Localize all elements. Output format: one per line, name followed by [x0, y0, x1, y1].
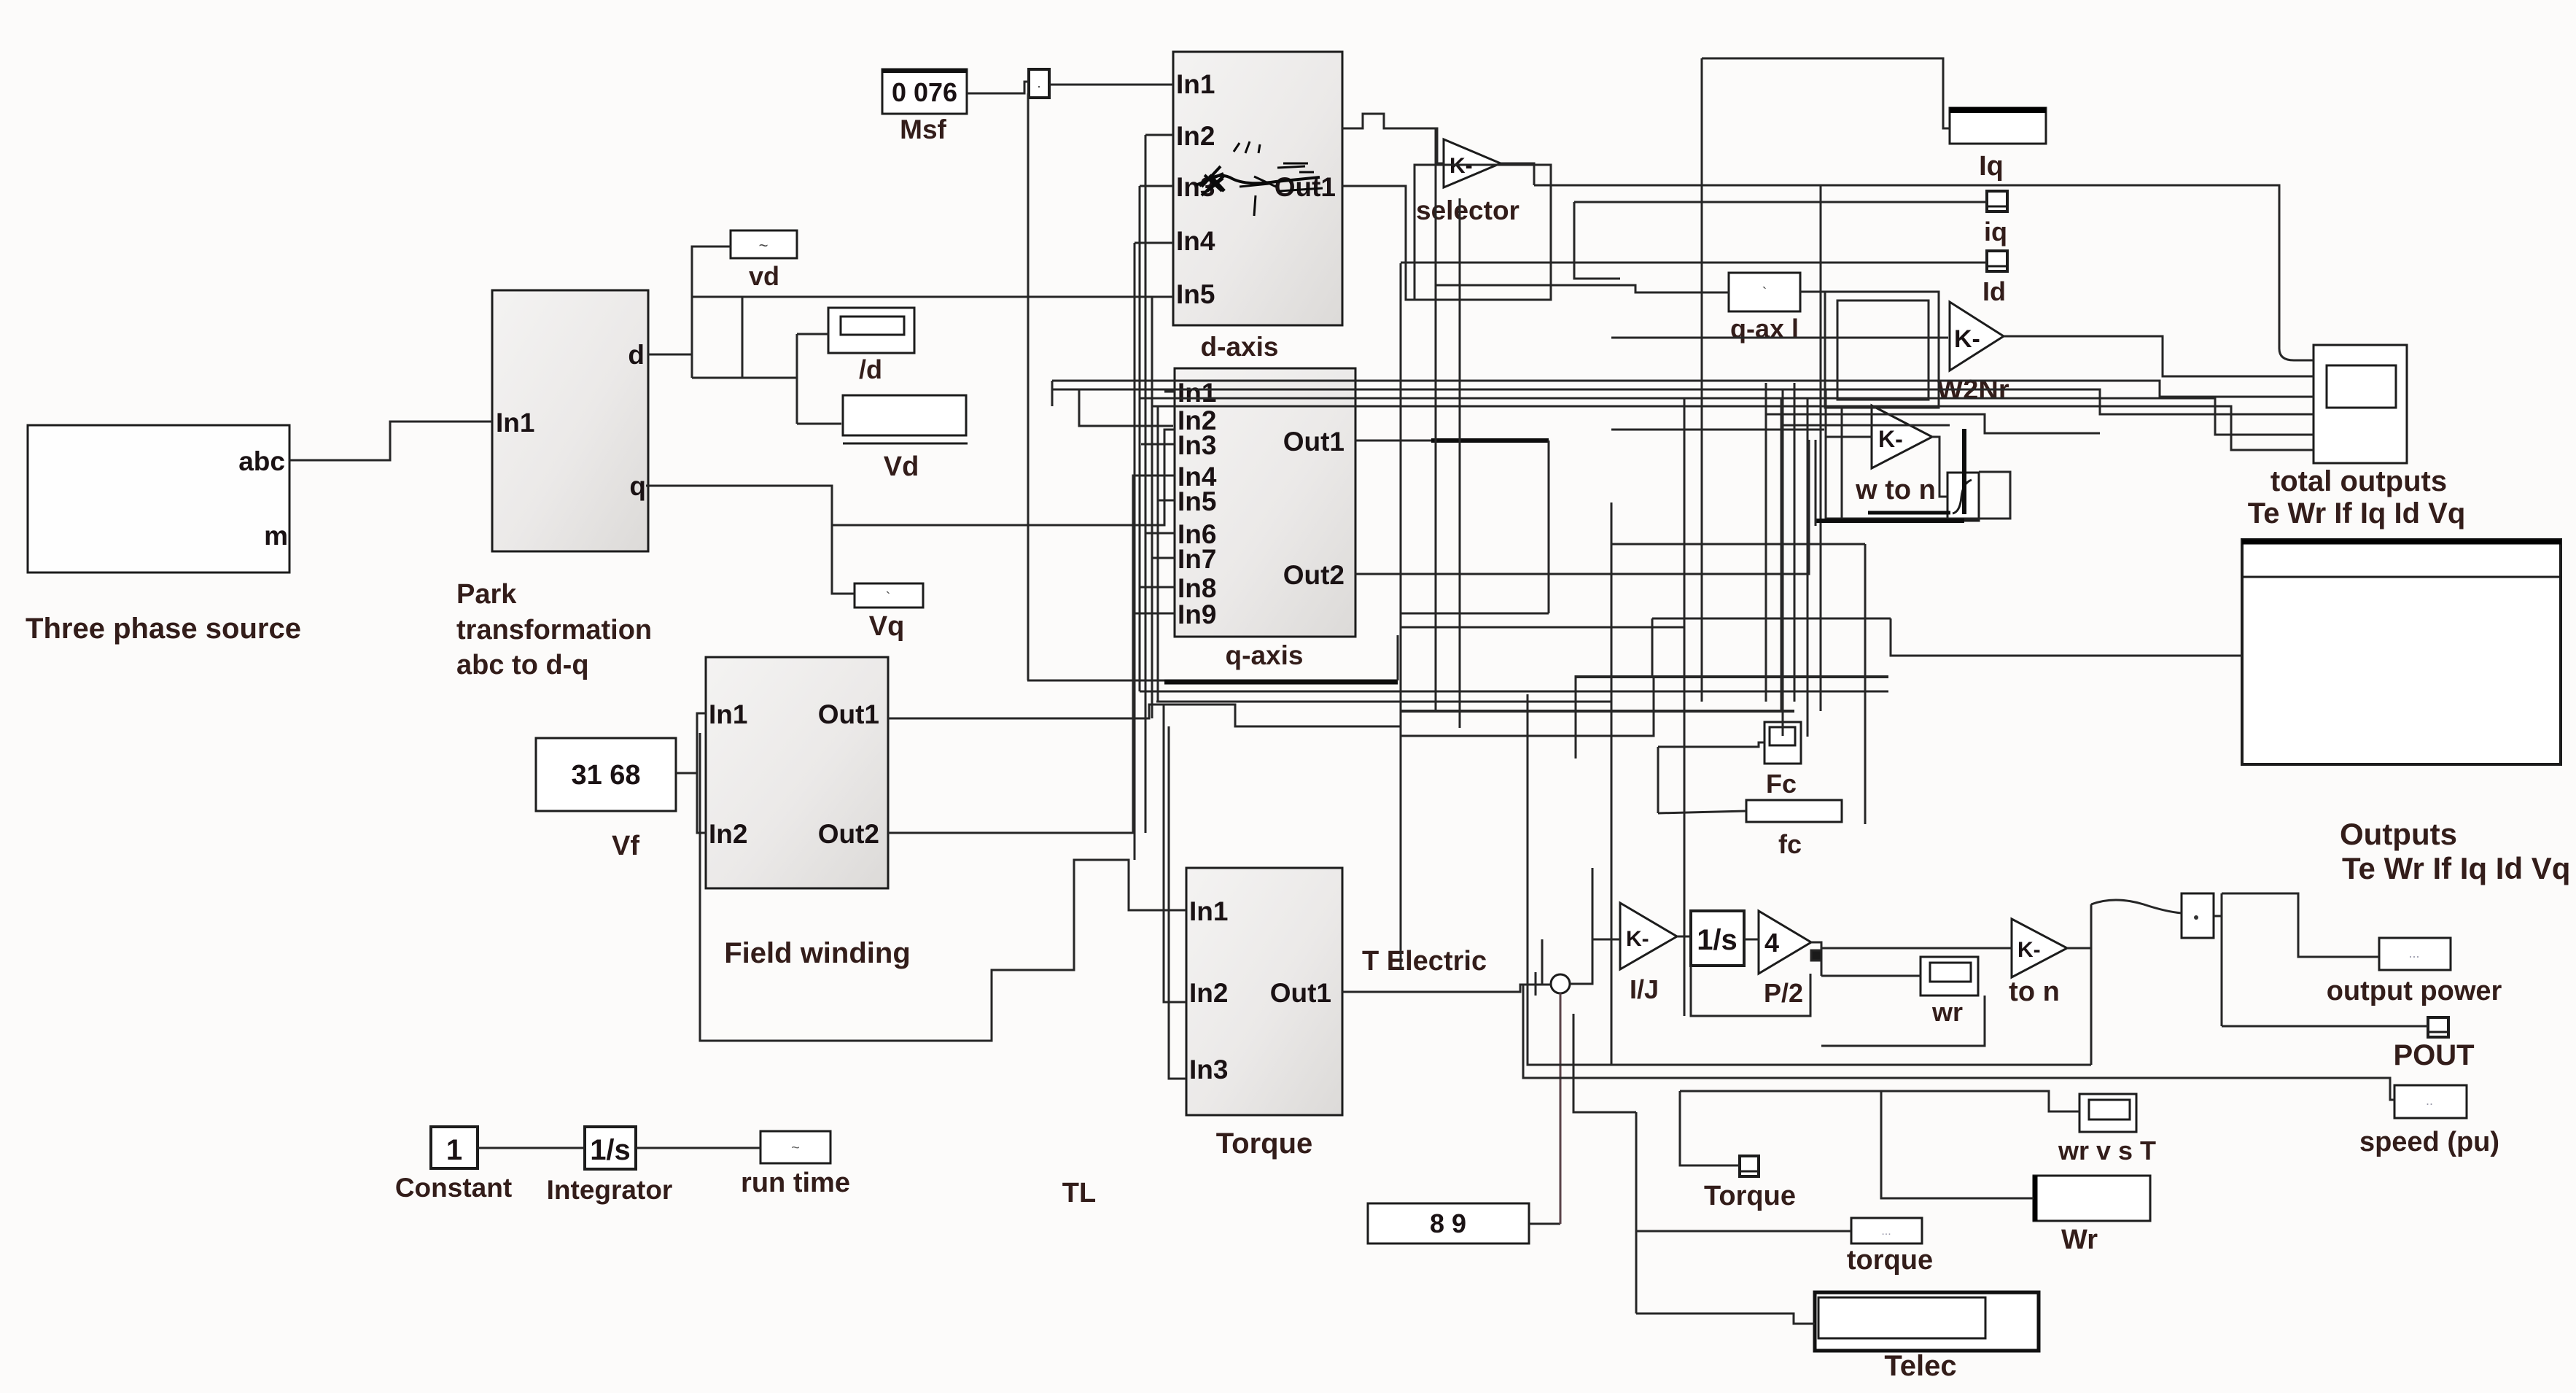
svg-text:q-axis: q-axis [1226, 640, 1304, 670]
display fc [1746, 800, 1842, 859]
outport Torque [1704, 1156, 1796, 1211]
svg-text:Park: Park [456, 579, 517, 610]
wire loop below integrator [1691, 966, 1810, 1016]
wire P/2 junction [1811, 942, 1821, 976]
wire bundle h2 to total outputs [1052, 389, 2314, 414]
wire segment y583 [1781, 424, 1950, 427]
wire thick horizontal w-n [1816, 519, 1964, 523]
wire q-axis In7 stub [1152, 557, 1175, 559]
svg-text:In2: In2 [1189, 978, 1228, 1008]
svg-text:output power: output power [2327, 976, 2502, 1006]
svg-text:Out1: Out1 [1270, 978, 1331, 1008]
wire loop under Field winding to Torque In1 [700, 733, 1186, 1041]
svg-text:In3: In3 [1189, 1055, 1228, 1084]
wire q-axis In5 stub [1158, 500, 1175, 502]
wire q-axis In8 stub [1140, 586, 1175, 589]
svg-text:1/s: 1/s [1697, 924, 1738, 956]
mux small block after Msf [1029, 69, 1049, 98]
gain to n [2009, 919, 2067, 1007]
wire segment y568 left [1766, 414, 1939, 416]
wire bundle h1 to total outputs [1052, 381, 2314, 397]
svg-text:d-axis: d-axis [1201, 332, 1279, 362]
wire vertical v2558 [1864, 544, 1867, 824]
wire vertical v2490 [1815, 440, 1817, 526]
wire trunk y962 [1156, 701, 1611, 703]
wire w to n input [1826, 436, 1872, 438]
svg-text:8 9: 8 9 [1430, 1208, 1466, 1238]
wire q-axis In3 stub [1141, 443, 1175, 446]
constant Vf 31.68 [536, 738, 676, 861]
svg-text:total outputs: total outputs [2270, 465, 2447, 497]
wire q-axis In9 stub [1135, 613, 1175, 615]
svg-text:Torque: Torque [1704, 1181, 1796, 1211]
wire fc corner vertical [1657, 747, 1659, 813]
svg-text:In8: In8 [1178, 573, 1216, 603]
wire thick trunk y933 [1027, 680, 1166, 682]
outport POUT [2393, 1017, 2474, 1071]
gain selector [1416, 139, 1519, 225]
wire stair right of w-n [1939, 414, 2100, 433]
block q-ax I [1729, 273, 1800, 344]
wire selector output [1501, 163, 1534, 185]
wire Vf branch to Field In2 [697, 773, 706, 833]
wire torque display feed [1636, 1230, 1851, 1233]
wire Torque Out1 to sum [1342, 985, 1551, 992]
wire In5 junction drop [742, 298, 744, 378]
scope Iq [1950, 108, 2046, 182]
display Vq [855, 583, 923, 642]
wire vertical v2161 [1575, 675, 1577, 758]
svg-text:31 68: 31 68 [571, 760, 640, 791]
wire vertical v2422 [1765, 383, 1767, 702]
wire fc input [1658, 811, 1746, 813]
wire source abc to Park In1 [289, 422, 492, 460]
subsystem d-axis [1173, 52, 1342, 362]
display speed (pu) [2359, 1085, 2499, 1157]
constant Msf 0.076 [882, 69, 967, 144]
svg-text:q: q [629, 471, 646, 501]
svg-text:Vd: Vd [884, 451, 919, 482]
sum junction circle [1551, 974, 1570, 993]
display Vd [843, 395, 968, 482]
wire W2Nr input [1611, 337, 1948, 339]
svg-text:In4: In4 [1176, 226, 1215, 256]
wire sum to I/J [1570, 939, 1620, 984]
svg-text:K-: K- [1878, 426, 1903, 452]
wire junction vertical [796, 334, 798, 424]
svg-text:..: .. [2426, 1093, 2433, 1108]
wire Fc input [1658, 742, 1764, 747]
svg-text:Field winding: Field winding [724, 937, 911, 969]
wire Constant to Integrator [478, 1147, 585, 1149]
svg-text:Vf: Vf [612, 831, 639, 861]
wire vertical v2124 [1548, 441, 1550, 613]
svg-text:In2: In2 [1176, 121, 1215, 151]
wire trunk y928 right [1576, 675, 1888, 678]
svg-text:Vq: Vq [869, 611, 905, 642]
svg-text:1/s: 1/s [590, 1134, 631, 1166]
svg-text:Msf: Msf [900, 115, 946, 144]
wire bundle dip to In2 [1079, 389, 1173, 426]
svg-text:Fc: Fc [1766, 769, 1797, 799]
svg-text:Out2: Out2 [818, 819, 879, 849]
wire vertical v2479 [1807, 398, 1809, 737]
wire loop below wr [1821, 996, 1985, 1046]
svg-text:abc to d-q: abc to d-q [456, 650, 589, 680]
svg-text:TL: TL [1062, 1178, 1096, 1208]
svg-text:Te Wr If Iq Id Vq: Te Wr If Iq Id Vq [2342, 851, 2570, 885]
svg-text:POUT: POUT [2393, 1039, 2474, 1071]
wire to n lower vertical [2090, 948, 2093, 1065]
wire horizontal y860 [1401, 626, 1684, 629]
scope /d [828, 308, 914, 384]
wire W2Nr loop inner [1837, 300, 1929, 400]
wire Integrator to run time [636, 1147, 760, 1149]
svg-text:Telec: Telec [1884, 1350, 1956, 1382]
annotation scribble on d-axis [1196, 141, 1323, 216]
svg-text:vd: vd [749, 261, 779, 291]
wire w to n loop bottom [1826, 472, 2010, 519]
svg-text:Out1: Out1 [818, 699, 879, 729]
svg-text:~: ~ [791, 1140, 800, 1156]
wire q-ax I feed [1436, 285, 1729, 292]
wire I/J to 1/s [1677, 936, 1691, 938]
wire In3 stub d-axis [1140, 185, 1173, 187]
wire mux vertical trunk down [1027, 93, 1030, 680]
wire d to Vd junction [692, 377, 797, 379]
wire d to vd display [692, 247, 731, 378]
svg-text:`: ` [1762, 285, 1767, 301]
wire bundle left vertical [1051, 381, 1054, 406]
svg-text:In1: In1 [1176, 69, 1215, 99]
subsystem Field winding [706, 657, 911, 969]
integrator block [547, 1127, 673, 1205]
svg-text:Id: Id [1982, 276, 2006, 306]
wire vertical 1917 up [1397, 635, 1399, 680]
wire w to n output to block [1932, 437, 1947, 497]
wire long speed pu [1523, 985, 2394, 1100]
wire iq outport line [1574, 201, 1987, 203]
svg-text:q-ax l: q-ax l [1730, 314, 1799, 344]
svg-text:P/2: P/2 [1764, 978, 1803, 1008]
wire W2Nr output to total outputs [2004, 336, 2314, 376]
wire Msf to mux [967, 82, 1029, 93]
wire q-axis In6 stub [1145, 532, 1175, 535]
subsystem Torque [1186, 868, 1342, 1160]
svg-text:~: ~ [759, 236, 768, 255]
wire trunk y975 [1401, 710, 1794, 713]
svg-text:Wr: Wr [2061, 1225, 2098, 1255]
wire bundle v1556 [1134, 243, 1136, 860]
wire to POUT [2222, 1025, 2428, 1028]
wire horizontal y589 [1611, 429, 1824, 431]
wire Vf to Field In1 [676, 713, 706, 773]
wire d to d-axis In5 [692, 296, 1173, 298]
scope wr [1921, 957, 1978, 1027]
wire Torque In3 feed [1169, 726, 1186, 1079]
wire bundle v1588 [1157, 406, 1159, 702]
svg-text:...: ... [2408, 946, 2419, 961]
wire q-axis In1 stub [1164, 391, 1175, 393]
wire trunk y948 [1140, 691, 1888, 693]
wire stub near sum [1535, 972, 1537, 996]
svg-text:transformation: transformation [456, 615, 652, 645]
svg-text:abc: abc [238, 446, 285, 476]
wire q to q-axis In2 [832, 430, 1175, 525]
wire sum tap down [1573, 1014, 1636, 1112]
svg-text:run time: run time [741, 1168, 850, 1198]
wire vertical v2504 [1825, 389, 1827, 519]
constant 8.9 [1368, 1203, 1529, 1243]
wire vertical v2002 [1459, 198, 1461, 728]
block Three phase source [26, 425, 301, 645]
outport Id [1982, 251, 2007, 306]
subsystem q-axis [1175, 368, 1355, 670]
annotation box Outputs [2242, 540, 2570, 885]
integrator 1/s [1691, 911, 1744, 966]
wire wr vs T feed [1680, 1091, 2079, 1111]
wire mux to d-axis In1 [1049, 84, 1173, 86]
svg-text:Out1: Out1 [1275, 172, 1336, 202]
svg-text:Three phase source: Three phase source [26, 613, 301, 645]
wire v2266 [1651, 618, 1654, 675]
svg-text:1: 1 [446, 1134, 462, 1166]
wire Torque In2 feed [1164, 705, 1186, 1002]
svg-text:wr: wr [1931, 997, 1963, 1027]
wire vertical v2210 [1611, 503, 1613, 1065]
svg-text:K-: K- [1626, 927, 1649, 951]
wire bundle h4 to total outputs [1152, 406, 2314, 450]
svg-text:K-: K- [1954, 325, 1980, 353]
wire q-axis Out2 trunk [1355, 440, 1809, 574]
wire horizontal y746 [1611, 543, 1865, 546]
gain w to n [1855, 406, 1936, 505]
wire to scope /d [797, 333, 829, 335]
wire loop to output power [2222, 893, 2379, 957]
wire q-axis Out1 trunk [1355, 440, 1431, 442]
svg-text:Iq: Iq [1979, 151, 2004, 182]
svg-text:speed (pu): speed (pu) [2359, 1127, 2499, 1157]
svg-text:fc: fc [1778, 829, 1802, 859]
wire to Torque outport [1680, 1091, 1740, 1165]
scope total outputs [2248, 345, 2466, 529]
svg-text:T Electric: T Electric [1362, 946, 1487, 977]
svg-text:Outputs: Outputs [2340, 817, 2457, 851]
block Park transformation [456, 290, 652, 680]
display output power [2327, 938, 2502, 1006]
wire Park q out to Vq [646, 486, 855, 594]
wire 1/s to P/2 [1744, 939, 1759, 941]
wire horizontal y847 [1401, 613, 1549, 615]
wire Telec feed [1636, 1314, 1815, 1324]
svg-text:iq: iq [1984, 217, 2007, 247]
svg-text:Out2: Out2 [1283, 560, 1345, 590]
svg-text:I/J: I/J [1630, 974, 1659, 1004]
wire Fc feed horizontal [1401, 675, 1654, 736]
wire vertical v2461 [1794, 383, 1796, 702]
wire to Outputs box [1891, 618, 2242, 656]
svg-text:In3: In3 [1178, 430, 1216, 460]
wire thick Out1 segment [1431, 438, 1549, 443]
wire vertical v1921 [1400, 263, 1402, 970]
display run time [741, 1131, 850, 1198]
wire Iq feed top [1702, 58, 1950, 128]
wire d-axis Out1 lower loop [1342, 165, 1551, 300]
display Telec [1815, 1292, 2039, 1382]
wire Park d out [648, 354, 692, 356]
gain I/J [1620, 903, 1677, 1004]
svg-text:Torque: Torque [1216, 1128, 1313, 1160]
svg-text:d: d [628, 340, 645, 370]
scope wr vs T [2058, 1094, 2156, 1165]
display torque [1847, 1218, 1933, 1276]
svg-text:In1: In1 [496, 408, 534, 438]
scope Fc [1764, 722, 1801, 799]
svg-text:/d: /d [859, 354, 882, 384]
display Wr [2034, 1176, 2150, 1255]
svg-text:Te Wr If Iq Id Vq: Te Wr If Iq Id Vq [2248, 497, 2466, 529]
constant 1 [395, 1127, 512, 1203]
wire bundle v1563 [1139, 186, 1141, 691]
svg-text:selector: selector [1416, 195, 1519, 225]
product block [2182, 893, 2214, 938]
wire W2Nr loop outer [1825, 292, 1939, 408]
wire to torque display [1635, 1112, 1638, 1314]
wire vertical v2443 [1781, 398, 1783, 711]
wire to Wr display [1881, 1091, 2034, 1198]
wire sum lower vertical [1560, 993, 1562, 1224]
wire In4 stub d-axis [1135, 242, 1173, 244]
wire Field Out1 staircase right [888, 705, 1401, 726]
wire product to loop [2214, 915, 2222, 917]
svg-text:to n: to n [2009, 977, 2060, 1007]
wire bundle v1571 [1145, 135, 1147, 833]
svg-text:...: ... [1881, 1225, 1891, 1238]
svg-text:torque: torque [1847, 1245, 1933, 1276]
wire junction to wr scope [1821, 975, 1921, 977]
wire vertical v2497 [1820, 185, 1822, 711]
wire vertical v1969 [1435, 128, 1437, 711]
wire selector to total outputs trunk [1534, 185, 2314, 360]
svg-text:In9: In9 [1178, 600, 1216, 629]
wire feedback to n loop [1528, 694, 2091, 1065]
wire vertical v2445 [1782, 389, 1784, 736]
svg-text:w to n: w to n [1855, 475, 1936, 505]
wire vertical above I/J [1592, 868, 1594, 939]
display vd [731, 230, 797, 291]
wire vertical 2334 [1701, 58, 1703, 702]
gain W2Nr [1937, 302, 2009, 406]
wire vertical v2526 [1841, 406, 1843, 518]
wire to display Vd [797, 423, 841, 425]
svg-text:0 076: 0 076 [892, 77, 957, 107]
block rate limiter (right of w to n) [1947, 473, 1979, 521]
wire thick vertical w-n [1962, 429, 1966, 514]
wire Id outport line [1401, 262, 1987, 264]
wire horizontal y848 [1652, 618, 1891, 620]
wire bundle v1580 [1151, 297, 1153, 718]
wire In2 stub d-axis [1145, 134, 1173, 136]
svg-text:K-: K- [2017, 938, 2041, 962]
wire curve into product [2091, 900, 2182, 913]
wire Field Out2 to q-axis In4 [888, 476, 1175, 833]
wire 8.9 to sum [1529, 1223, 1560, 1225]
svg-text:m: m [264, 521, 288, 551]
svg-text:.: . [1037, 76, 1040, 90]
svg-text:Integrator: Integrator [547, 1175, 673, 1205]
wire q-ax I out to loop [1800, 291, 1825, 293]
svg-text:wr v s T: wr v s T [2058, 1136, 2156, 1165]
outport iq [1984, 191, 2007, 247]
svg-text:`: ` [886, 590, 891, 606]
svg-text:In1: In1 [709, 699, 747, 729]
wire d-axis Out1 upper to selector [1342, 114, 1444, 163]
wire vertical v2317 telec trunk [1684, 398, 1686, 1016]
svg-text:4: 4 [1764, 928, 1779, 958]
svg-text:In7: In7 [1178, 544, 1216, 574]
svg-text:Out1: Out1 [1283, 427, 1345, 457]
wire loop vertical [2221, 893, 2223, 1026]
wire bundle h3 to total outputs [1140, 398, 2314, 435]
wire stub near sum 2 [1541, 939, 1544, 985]
svg-text:In2: In2 [709, 819, 747, 849]
wire vertical selector drop [1574, 202, 1620, 279]
junction node [1811, 950, 1821, 961]
wire junction to gain to n [1821, 947, 2012, 950]
wire to n output up [2067, 904, 2091, 948]
svg-text:In5: In5 [1176, 279, 1215, 309]
svg-text:In5: In5 [1178, 486, 1216, 516]
wire thick horizontal w-n upper [1868, 511, 1950, 515]
svg-text:In1: In1 [1178, 378, 1216, 408]
svg-text:Constant: Constant [395, 1173, 512, 1203]
svg-text:In1: In1 [1189, 896, 1228, 926]
gain P/2 [1759, 911, 1811, 1008]
